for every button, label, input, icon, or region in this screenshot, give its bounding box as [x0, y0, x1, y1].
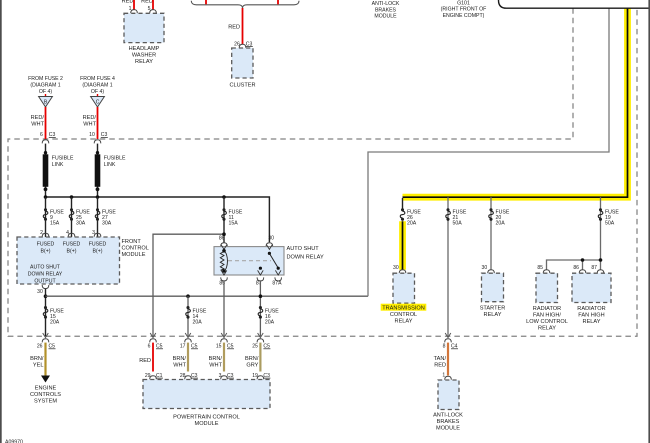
svg-text:ENGINE: ENGINE	[35, 385, 57, 391]
svg-text:FAN HIGH/: FAN HIGH/	[533, 313, 561, 319]
wire: RED/WHT from triangle B	[45, 107, 47, 139]
svg-text:CONTROLS: CONTROLS	[30, 392, 61, 398]
connector dome TCR pin 30	[399, 270, 406, 274]
wire label BRN/WHT (15)	[209, 356, 223, 369]
connector dome pin 5	[150, 10, 157, 14]
svg-text:ANTI-LOCK: ANTI-LOCK	[433, 413, 463, 419]
label ANTI-LOCK BRAKES MODULE (bottom)	[433, 413, 463, 432]
screen right edge bar	[648, 0, 650, 443]
svg-text:RELAY: RELAY	[395, 318, 413, 324]
pin 6 / C5 label	[148, 344, 163, 350]
triangle connector C	[91, 94, 105, 107]
svg-text:WHT: WHT	[31, 122, 44, 128]
fuse F14	[186, 306, 191, 319]
connector dome ASD pin 30	[266, 243, 273, 247]
svg-text:ANTI-LOCK: ANTI-LOCK	[372, 1, 400, 7]
screen left edge bar	[0, 0, 2, 443]
pin 15 / C5 label	[216, 344, 234, 350]
svg-text:LINK: LINK	[104, 162, 116, 168]
label FROM FUSE 4 (DIAGRAM 1 OF 4)	[80, 76, 115, 95]
svg-text:6: 6	[40, 132, 43, 138]
connector label C3 (pin 10)	[101, 132, 108, 138]
junction at fuse11/branch	[222, 232, 226, 236]
wire: TAN/RED to anti-lock brakes module	[447, 343, 449, 376]
brace (wires merge)	[191, 1, 299, 8]
svg-text:(DIAGRAM 1: (DIAGRAM 1	[30, 83, 60, 89]
wire: bus to fuse 9 to FCM pin 2	[45, 197, 47, 237]
connector dome PCM pin 28	[185, 376, 192, 380]
wire: fuse 14 drop	[187, 296, 189, 336]
label TRANSMISSION CONTROL RELAY	[382, 305, 425, 324]
starter relay box	[482, 273, 504, 302]
svg-text:30: 30	[393, 265, 399, 271]
wire: red stub into brace (left)	[205, 0, 207, 4]
label POWERTRAIN CONTROL MODULE	[173, 414, 240, 427]
svg-text:RED: RED	[122, 0, 134, 5]
power distribution center: big dashed box	[8, 8, 637, 336]
label HEADLAMP WASHER RELAY	[129, 46, 160, 65]
ASD coil terminal dots	[222, 249, 226, 253]
wire: ASD pin 85 down to crossing	[223, 281, 225, 336]
overlay window bottom edge (top right)	[499, 0, 650, 8]
exit arrow x224	[221, 333, 227, 338]
wire: fuse 19 to radiator fan relays	[547, 197, 601, 270]
svg-text:50A: 50A	[605, 221, 615, 227]
svg-text:MODULE: MODULE	[436, 426, 460, 432]
svg-text:FUSIBLE: FUSIBLE	[52, 155, 74, 161]
label FUSE 19 50A	[605, 210, 619, 227]
svg-text:86: 86	[573, 265, 579, 271]
svg-text:30A: 30A	[102, 221, 112, 227]
pin 29 / C1 label	[145, 373, 163, 379]
connector dome pin 1	[131, 10, 138, 14]
exit arrow x260	[258, 333, 264, 338]
svg-text:50A: 50A	[453, 221, 463, 227]
label RADIATOR FAN HIGH RELAY	[577, 306, 605, 325]
wire: fuse 20 to starter relay	[490, 197, 492, 270]
label FUSE 26 20A	[407, 210, 421, 227]
svg-text:25: 25	[252, 344, 258, 350]
svg-text:B(+): B(+)	[41, 248, 51, 254]
wire: BRN/WHT to PCM 28	[187, 343, 189, 372]
wire: red feed to headlamp washer relay pin 5	[152, 0, 154, 10]
svg-text:CONTROL: CONTROL	[122, 245, 149, 251]
wire: bus to fuse 25 to FCM pin 4	[71, 197, 73, 237]
wire: left feed bus	[46, 197, 270, 242]
svg-text:AUTO SHUT: AUTO SHUT	[287, 246, 320, 252]
svg-text:FUSED: FUSED	[63, 241, 81, 247]
svg-text:87A: 87A	[272, 280, 282, 286]
svg-text:HEADLAMP: HEADLAMP	[129, 46, 160, 52]
wire label RED/WHT (C)	[83, 115, 97, 128]
svg-text:FAN HIGH: FAN HIGH	[578, 313, 604, 319]
radiator fan high relay box	[572, 273, 611, 302]
svg-text:20A: 20A	[407, 221, 417, 227]
label FUSE 11 15A	[229, 210, 243, 227]
label ANTI-LOCK BRAKES MODULE (top, cut)	[372, 1, 400, 20]
connector dome at pin 6 crossing	[42, 140, 49, 144]
connector dome below border x224	[221, 339, 228, 343]
junction on bus at fuse 25	[70, 195, 74, 199]
wire: gray return path (ASD output to top right)	[368, 9, 609, 297]
wire label BRN/WHT (17)	[173, 356, 187, 369]
svg-text:BRAKES: BRAKES	[437, 419, 460, 425]
fuse F11	[222, 208, 227, 221]
ASD switch blade 30 to 87A	[259, 252, 280, 270]
label FUSE 25 30A	[76, 210, 90, 227]
svg-text:6: 6	[148, 344, 151, 350]
wire: RED/WHT from triangle C	[97, 107, 99, 139]
svg-text:20A: 20A	[265, 319, 275, 325]
svg-text:86: 86	[219, 236, 225, 242]
connector dome FCM pin 2	[42, 233, 49, 237]
pin 3 / C3 label	[219, 373, 234, 379]
highlight TRANSMISSION label	[381, 304, 427, 311]
label FUSE 16 20A	[265, 308, 279, 325]
connector dome PCM pin 29	[150, 376, 157, 380]
label RADIATOR FAN HIGH/ LOW CONTROL RELAY	[526, 306, 568, 332]
svg-text:RED: RED	[228, 24, 240, 30]
svg-text:8: 8	[443, 344, 446, 350]
svg-text:15: 15	[216, 344, 222, 350]
junction at fuse 14	[186, 294, 190, 298]
svg-text:(DIAGRAM 1: (DIAGRAM 1	[82, 83, 112, 89]
svg-text:WHT: WHT	[173, 362, 186, 368]
connector dome below border x260	[257, 339, 264, 343]
exit arrow x448	[445, 333, 451, 338]
svg-text:RELAY: RELAY	[583, 319, 601, 325]
wire: bus to fuse 27 to FCM pin 3	[97, 197, 99, 237]
wire: FCM pin 30 down to crossing	[45, 289, 47, 337]
wire: BRN/WHT to PCM 3	[223, 343, 225, 372]
wire: fuse 21 feed to anti-lock brakes	[447, 197, 449, 336]
fuse F19	[598, 208, 603, 221]
svg-text:SYSTEM: SYSTEM	[34, 398, 57, 404]
svg-text:BRN/: BRN/	[30, 356, 44, 362]
fuse F9	[43, 208, 48, 221]
junction on bus at link 1	[44, 195, 48, 199]
svg-text:30: 30	[37, 289, 43, 295]
connector dome at pin 10 crossing	[94, 140, 101, 144]
svg-text:RED/: RED/	[31, 115, 45, 121]
connector dome below border x448	[445, 339, 452, 343]
connector label C3 (pin 6)	[49, 132, 56, 138]
svg-text:20A: 20A	[193, 319, 203, 325]
exit arrow x188	[185, 333, 191, 338]
svg-text:BRN/: BRN/	[245, 356, 259, 362]
svg-text:C: C	[96, 99, 100, 105]
svg-text:STARTER: STARTER	[480, 305, 506, 311]
svg-text:15A: 15A	[229, 221, 239, 227]
connector dome rad fan pin 85	[543, 270, 550, 274]
junction radiator fan 87	[599, 258, 603, 262]
ASD relay exit arrow pin 85	[221, 270, 227, 275]
connector cup ASD pin 87	[257, 277, 264, 281]
wire: ASD output horizontal	[46, 295, 369, 297]
exit arrow x153	[150, 333, 156, 338]
label FRONT CONTROL MODULE	[122, 239, 149, 258]
label FUSE 21 50A	[453, 210, 467, 227]
svg-text:AUTO SHUT: AUTO SHUT	[30, 264, 61, 270]
fuse F25	[69, 208, 74, 221]
label STARTER RELAY	[480, 305, 506, 318]
pin 17 / C5 label	[180, 344, 198, 350]
svg-text:20A: 20A	[50, 319, 60, 325]
label AUTO SHUT DOWN RELAY OUTPUT	[28, 264, 63, 284]
connector dome FCM pin 4	[68, 233, 75, 237]
svg-text:BRN/: BRN/	[209, 356, 223, 362]
ASD relay linkage dashed	[228, 260, 271, 262]
connector dome PCM pin 19	[257, 376, 264, 380]
svg-text:RED: RED	[141, 0, 153, 5]
label FUSE 15 20A	[50, 308, 64, 325]
connector label C5 (x45.5)	[49, 344, 56, 350]
svg-text:POWERTRAIN CONTROL: POWERTRAIN CONTROL	[173, 414, 240, 420]
fusible link 1	[43, 151, 49, 191]
triangle connector B	[39, 94, 53, 107]
label FUSIBLE LINK (2)	[104, 155, 126, 167]
svg-text:MODULE: MODULE	[122, 252, 146, 258]
powertrain control module box	[143, 380, 270, 409]
ASD relay exit arrow pin 87	[258, 270, 264, 275]
svg-text:DOWN RELAY: DOWN RELAY	[287, 254, 324, 260]
svg-text:CLUSTER: CLUSTER	[229, 83, 255, 89]
ASD relay entry arrow pin 86	[221, 245, 227, 250]
svg-text:FUSED: FUSED	[89, 241, 107, 247]
exit arrow x45.5 at dashed border	[43, 333, 49, 338]
connector dome below border x188	[185, 339, 192, 343]
svg-text:RADIATOR: RADIATOR	[577, 306, 605, 312]
svg-text:WHT: WHT	[83, 122, 96, 128]
connector dome below border x153	[150, 339, 157, 343]
wire label TAN/RED	[434, 356, 447, 369]
fuse F20	[489, 208, 494, 221]
radiator fan high/low control relay box	[536, 273, 558, 302]
ASD relay coil	[220, 251, 227, 271]
svg-text:BRAKES: BRAKES	[375, 7, 397, 13]
highlighted wire black core	[403, 9, 628, 270]
pin 25 / C5 label	[252, 344, 270, 350]
svg-text:B(+): B(+)	[67, 248, 77, 254]
svg-text:FUSIBLE: FUSIBLE	[104, 155, 126, 161]
svg-text:OUTPUT: OUTPUT	[34, 278, 56, 284]
connector cup FCM pin 30	[42, 285, 49, 289]
svg-text:GRY: GRY	[246, 362, 258, 368]
wire: fusible link 2 lead	[97, 144, 99, 197]
connector dome PCM pin 3	[221, 376, 228, 380]
arrow to engine controls system	[41, 376, 50, 383]
svg-text:WHT: WHT	[209, 362, 222, 368]
label FUSED B(+) pin3	[89, 241, 107, 254]
label ENGINE CONTROLS SYSTEM	[30, 385, 61, 404]
connector dome ABM pin 1	[445, 376, 452, 380]
svg-text:(RIGHT FRONT OF: (RIGHT FRONT OF	[441, 7, 487, 13]
svg-text:87: 87	[591, 265, 597, 271]
label FUSIBLE LINK (1)	[52, 155, 74, 167]
svg-text:10: 10	[89, 132, 95, 138]
label FUSED B(+) pin2	[37, 241, 55, 254]
svg-text:RADIATOR: RADIATOR	[533, 306, 561, 312]
anti-lock brakes module box	[438, 380, 459, 410]
svg-text:RED/: RED/	[83, 115, 97, 121]
svg-text:BRN/: BRN/	[173, 356, 187, 362]
svg-text:30A: 30A	[76, 221, 86, 227]
svg-text:RED: RED	[434, 362, 446, 368]
wire: BRN/YEL to engine controls	[44, 343, 46, 376]
wire label RED/WHT (B)	[31, 115, 45, 128]
connector label C3 (cluster)	[246, 41, 253, 47]
fuse F15	[43, 306, 48, 319]
wire: ASD pin 87 down through fuse 16	[259, 281, 261, 336]
wire label BRN/YEL	[30, 356, 44, 369]
junction at pin 87 wire	[259, 294, 263, 298]
svg-text:26: 26	[37, 344, 43, 350]
highlighted circuit: yellow trace	[403, 9, 628, 270]
fuse F27	[95, 208, 100, 221]
svg-text:WASHER: WASHER	[132, 53, 156, 59]
svg-text:RED: RED	[139, 358, 151, 364]
ASD relay exit arrow pin 87A	[275, 270, 281, 275]
label FROM FUSE 2 (DIAGRAM 1 OF 4)	[28, 76, 63, 95]
svg-text:TRANSMISSION: TRANSMISSION	[382, 305, 425, 311]
svg-text:85: 85	[537, 265, 543, 271]
svg-text:G101: G101	[457, 0, 470, 6]
svg-text:ENGINE COMPT): ENGINE COMPT)	[443, 13, 485, 19]
svg-text:B(+): B(+)	[93, 248, 103, 254]
transmission control relay box	[393, 273, 415, 303]
wire label BRN/GRY	[245, 356, 259, 369]
svg-text:RELAY: RELAY	[484, 312, 502, 318]
label FUSE 14 20A	[193, 308, 207, 325]
cluster box	[232, 48, 253, 78]
wire: branch to PCM pin 29 feed	[153, 234, 224, 336]
pin 19 / C3 label	[252, 373, 270, 379]
svg-text:LOW CONTROL: LOW CONTROL	[526, 319, 568, 325]
fuse F21	[446, 208, 451, 221]
svg-text:YEL: YEL	[33, 362, 44, 368]
junction radiator fan 86	[581, 258, 585, 262]
svg-text:20A: 20A	[496, 221, 506, 227]
svg-text:FUSED: FUSED	[37, 241, 55, 247]
svg-text:A09970: A09970	[5, 440, 23, 443]
connector dome ASD pin 86	[221, 243, 228, 247]
connector dome rad fan pin 87	[597, 270, 604, 274]
svg-text:FRONT: FRONT	[122, 239, 142, 245]
label FUSE 20 20A	[496, 210, 510, 227]
wire: red feed to headlamp washer relay pin 1	[133, 0, 135, 10]
svg-text:LINK: LINK	[52, 162, 64, 168]
label G101 (RIGHT FRONT OF ENGINE COMPT)	[441, 0, 487, 19]
svg-text:MODULE: MODULE	[374, 14, 397, 20]
fuse F16	[258, 306, 263, 319]
wire: stub bus to fuse 26	[402, 198, 404, 210]
svg-text:FROM FUSE 2: FROM FUSE 2	[28, 76, 63, 82]
svg-text:CONTROL: CONTROL	[390, 312, 417, 318]
svg-text:30: 30	[482, 265, 488, 271]
label FUSE 27 30A	[102, 210, 116, 227]
wire: RED to PCM 29	[152, 343, 154, 372]
auto shut down relay box	[214, 247, 284, 275]
front control module box	[17, 237, 120, 284]
label FUSED B(+) pin4	[63, 241, 81, 254]
wire: bus to fuse 11 to ASD relay pin 86	[223, 197, 225, 243]
svg-text:FROM FUSE 4: FROM FUSE 4	[80, 76, 115, 82]
junction on bus at fuse 11	[222, 195, 226, 199]
svg-text:DOWN RELAY: DOWN RELAY	[28, 271, 63, 277]
connector dome starter relay pin 30	[488, 270, 495, 274]
svg-text:MODULE: MODULE	[195, 421, 219, 427]
junction on bus at link 2	[96, 195, 100, 199]
connector dome FCM pin 3	[94, 233, 101, 237]
wire: red from brace to cluster	[242, 8, 244, 44]
wire: fusible link 1 lead	[45, 144, 47, 197]
label FUSE 9 15A	[50, 210, 64, 227]
headlamp washer relay box	[124, 13, 164, 42]
pin 8 / C4 label	[443, 344, 458, 350]
connector dome cluster pin 26	[239, 44, 246, 48]
label AUTO SHUT DOWN RELAY	[287, 246, 324, 260]
svg-text:RELAY: RELAY	[135, 59, 153, 65]
svg-text:17: 17	[180, 344, 186, 350]
wire: red stub into brace (right)	[277, 0, 279, 4]
fuse F26	[400, 208, 405, 221]
svg-text:RELAY: RELAY	[538, 326, 556, 332]
pin 28 / C3 label	[180, 373, 198, 379]
ASD relay entry arrow pin 30	[267, 245, 273, 250]
svg-text:15A: 15A	[50, 221, 60, 227]
connector cup ASD pin 87A	[275, 277, 282, 281]
connector cup ASD pin 85	[221, 277, 228, 281]
connector dome below border x45.5	[42, 339, 49, 343]
fusible link 2	[95, 151, 101, 191]
svg-text:TAN/: TAN/	[434, 356, 447, 362]
svg-text:30: 30	[268, 236, 274, 242]
connector dome rad fan pin 86	[579, 270, 586, 274]
wire: BRN/GRY to PCM 19	[259, 343, 261, 372]
junction: FCM output to ASD horizontal	[44, 294, 48, 298]
